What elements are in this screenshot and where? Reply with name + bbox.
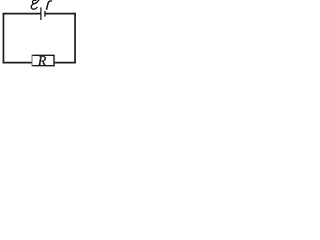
wire: top side, left of battery — [3, 13, 41, 15]
resistor box left edge — [31, 55, 33, 66]
battery cell short plate (negative) — [44, 11, 46, 17]
wire: bottom side, left of resistor R — [3, 62, 33, 64]
battery cell long plate (positive) — [40, 7, 42, 20]
resistor box bottom edge — [32, 65, 55, 67]
resistor label R — [38, 56, 46, 65]
EMF label script-E: upper loop — [32, 0, 35, 4]
wire: bottom side, right of resistor R — [54, 62, 76, 64]
EMF label script-E: flourish and lower bowl — [31, 0, 39, 9]
internal resistance label r: stem — [47, 2, 49, 9]
resistor box right edge — [53, 55, 55, 66]
wire: left side of loop — [2, 13, 4, 64]
internal resistance label r: foot serif — [46, 8, 47, 10]
internal resistance label r: top arm — [49, 0, 52, 3]
wire: right side of loop — [74, 13, 76, 64]
resistor box top edge — [32, 54, 55, 56]
wire: top side, right of battery — [45, 13, 76, 15]
